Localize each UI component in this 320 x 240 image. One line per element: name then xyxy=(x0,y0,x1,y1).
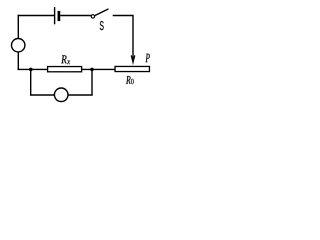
label S xyxy=(100,21,104,30)
wire Rx to rheostat xyxy=(82,68,115,70)
ammeter (unlabeled meter) xyxy=(12,39,25,52)
wire left vertical upper (to ammeter) xyxy=(17,15,19,39)
voltmeter (unlabeled meter) xyxy=(54,88,68,102)
wire right vertical (to rheostat slider) xyxy=(132,15,134,61)
wire voltmeter branch bottom-left xyxy=(30,94,54,96)
junction node left (Rx / voltmeter tap) xyxy=(29,68,33,72)
wire top-left horizontal (battery + to left rail) xyxy=(18,15,55,17)
wire left vertical lower (ammeter to bottom rail) xyxy=(17,52,19,70)
wire voltmeter branch right vertical xyxy=(91,69,93,95)
wire battery to switch xyxy=(60,15,91,17)
battery cell short thick plate xyxy=(58,11,61,21)
label Rx xyxy=(61,55,66,63)
junction node right (Rx / voltmeter tap) xyxy=(90,68,94,72)
wire voltmeter branch left vertical xyxy=(30,69,32,95)
wire bottom-left horizontal (to Rx) xyxy=(18,68,48,70)
resistor Rx body xyxy=(48,67,82,72)
battery cell long plate xyxy=(54,7,56,24)
switch S pivot circle xyxy=(91,15,94,18)
rheostat R0 body xyxy=(115,66,149,71)
switch S blade (open) xyxy=(95,9,109,16)
label P xyxy=(145,54,149,62)
label R0 xyxy=(126,76,131,84)
wire voltmeter branch bottom-right xyxy=(68,94,93,96)
slider arrowhead xyxy=(131,55,136,65)
wire switch to top-right corner xyxy=(113,15,133,17)
